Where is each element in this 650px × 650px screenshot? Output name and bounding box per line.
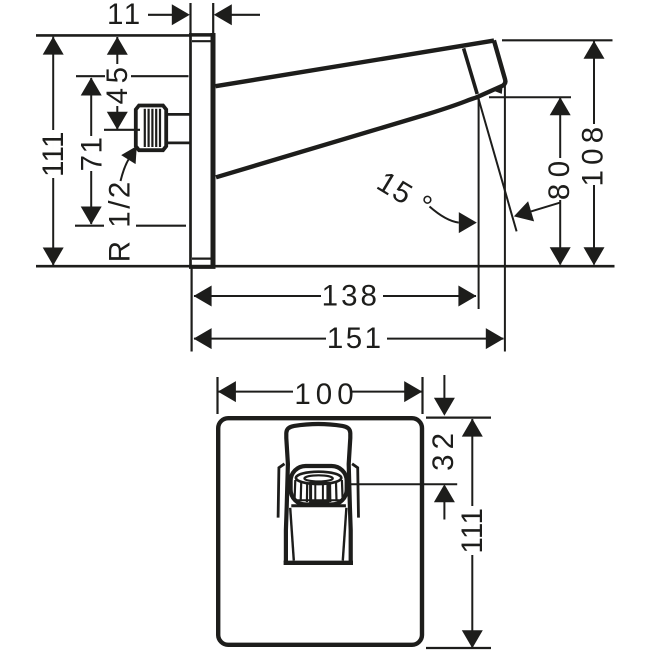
svg-text:151: 151 xyxy=(327,322,384,355)
svg-text:108: 108 xyxy=(576,122,609,187)
svg-text:32: 32 xyxy=(427,428,460,471)
svg-text:111: 111 xyxy=(37,131,70,177)
svg-text:80: 80 xyxy=(543,154,576,200)
svg-text:R 1/2: R 1/2 xyxy=(103,179,136,262)
svg-text:111: 111 xyxy=(456,508,489,554)
svg-text:71: 71 xyxy=(76,136,109,172)
svg-text:11: 11 xyxy=(107,0,143,31)
svg-text:100: 100 xyxy=(294,378,358,411)
svg-text:45: 45 xyxy=(101,62,134,104)
svg-text:138: 138 xyxy=(322,280,380,313)
